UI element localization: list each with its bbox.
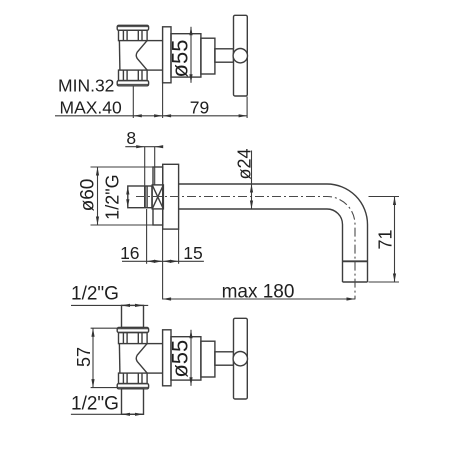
dim O24 leader — [250, 151, 253, 210]
dim O60 — [91, 167, 155, 225]
svg-text:1/2"G: 1/2"G — [103, 174, 123, 219]
dim 71 — [369, 197, 400, 283]
spout bend — [327, 184, 368, 225]
dim 1/2G bottom stub — [71, 413, 144, 416]
svg-text:71: 71 — [376, 229, 396, 249]
dim 8 — [125, 145, 163, 186]
trim flange — [171, 337, 201, 380]
valve top threaded section — [119, 333, 148, 344]
wall escutcheon plate (O55) — [163, 27, 171, 83]
dim O55 (top) — [189, 27, 192, 83]
svg-text:MAX.40: MAX.40 — [60, 98, 123, 118]
svg-text:MIN.32: MIN.32 — [58, 76, 114, 96]
valve bottom threaded section — [119, 373, 148, 384]
dim max 180 — [163, 297, 355, 300]
cartridge step — [201, 38, 215, 74]
svg-text:57: 57 — [74, 347, 94, 367]
svg-text:79: 79 — [190, 98, 209, 118]
svg-text:max 180: max 180 — [222, 281, 295, 302]
svg-text:ø55: ø55 — [168, 340, 193, 378]
dim line MIN.32/MAX.40 + 79 — [55, 83, 247, 118]
handle stem — [215, 352, 234, 365]
stub diameter arrows (1/2G) — [126, 186, 129, 208]
dim 1/2G top stub — [71, 304, 148, 307]
handle bar — [234, 15, 248, 96]
top supply stub — [122, 305, 144, 327]
handle bar — [234, 318, 248, 399]
spout vertical end — [343, 225, 368, 283]
inlet stub pipe 1/2G — [128, 186, 152, 208]
dim O55 (bottom) — [189, 330, 192, 386]
svg-text:15: 15 — [183, 243, 202, 263]
valve body — [119, 344, 147, 374]
bottom supply stub — [122, 389, 144, 415]
spout flange — [163, 164, 179, 229]
svg-text:ø24: ø24 — [234, 148, 254, 179]
handle hub circle — [233, 352, 247, 366]
wall cross-section box with X — [152, 185, 163, 209]
svg-text:1/2"G: 1/2"G — [71, 393, 119, 414]
valve outlet to wall — [147, 41, 163, 71]
valve outlet to wall — [147, 344, 163, 374]
valve top cap flange — [117, 328, 148, 333]
handle hub circle — [233, 49, 247, 63]
svg-text:16: 16 — [120, 243, 139, 263]
cartridge step — [201, 341, 215, 377]
svg-text:ø55: ø55 — [168, 40, 193, 78]
wall plate of spout (O60) — [153, 167, 163, 225]
svg-text:ø60: ø60 — [78, 179, 99, 212]
valve bottom threaded section — [119, 70, 148, 81]
valve bottom cap flange — [117, 384, 148, 389]
handle stem — [215, 49, 234, 62]
valve top threaded section — [119, 30, 148, 40]
valve bottom cap flange — [117, 81, 148, 86]
centerline of spout — [136, 197, 355, 300]
svg-text:8: 8 — [126, 128, 136, 148]
svg-text:1/2"G: 1/2"G — [71, 283, 119, 304]
trim flange — [171, 34, 201, 77]
dim 57 — [91, 328, 117, 387]
wall escutcheon plate (O55) — [163, 330, 171, 386]
spout tube horizontal — [179, 184, 327, 209]
dim 16 / 15 — [122, 209, 204, 300]
valve top cap flange — [117, 25, 148, 30]
valve body — [119, 41, 147, 71]
